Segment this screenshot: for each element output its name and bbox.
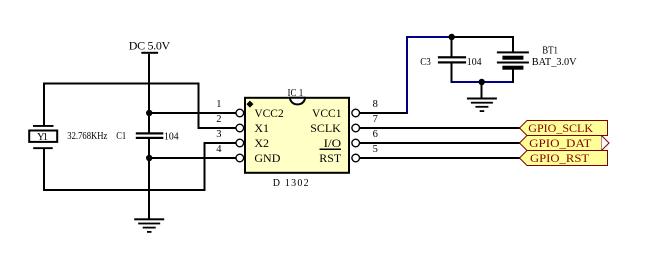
wire: navy vertical pin8 up — [406, 36, 408, 114]
node: junction GND/pin4 — [146, 155, 152, 161]
capacitor C1 — [136, 132, 164, 139]
svg-text:BAT_3.0V: BAT_3.0V — [532, 56, 577, 68]
wire: pin6 I/O to flag — [360, 142, 520, 144]
wire: vertical pin3 to bottom wire — [204, 142, 206, 191]
svg-text:RST: RST — [319, 151, 341, 165]
svg-text:3: 3 — [216, 129, 221, 140]
svg-text:I/O: I/O — [324, 136, 342, 150]
svg-text:32.768KHz: 32.768KHz — [67, 131, 107, 142]
wire: vertical from top wire to pin2 — [198, 83, 200, 130]
port flag GPIO_SCLK — [520, 121, 608, 136]
wire: bottom horizontal (X2 net) — [43, 189, 206, 191]
notch at top of IC — [290, 98, 305, 105]
svg-text:IC 1: IC 1 — [288, 88, 304, 99]
pin circle 7 — [352, 124, 360, 132]
wire: left vertical to crystal top — [43, 83, 45, 127]
wire: pin8 horizontal — [360, 112, 409, 114]
svg-text:X1: X1 — [254, 121, 269, 135]
svg-text:GND: GND — [254, 151, 280, 165]
svg-text:BT1: BT1 — [542, 45, 558, 57]
svg-text:8: 8 — [373, 99, 378, 110]
pin circle 3 — [236, 139, 244, 147]
wire: pin5 RST to flag — [360, 157, 520, 159]
wire: battery top lead — [512, 36, 514, 52]
node: junction at ground (bottom right) — [479, 79, 485, 85]
wire: VCC vertical from power to C1 top — [148, 84, 150, 134]
wire: battery bottom lead — [512, 69, 514, 83]
wire: navy bottom horizontal C3 to battery — [452, 81, 513, 83]
svg-text:DC 5.0V: DC 5.0V — [129, 39, 171, 53]
wire: navy horizontal to junction — [406, 36, 452, 38]
pin-1 diamond marker — [246, 101, 253, 108]
svg-text:5: 5 — [373, 144, 378, 155]
battery BT1 — [497, 51, 529, 69]
svg-text:2: 2 — [216, 114, 221, 125]
IC U1 D1302 body — [216, 88, 378, 189]
wire: C3 bottom stem — [451, 63, 453, 83]
node: junction at C3 top — [449, 34, 455, 40]
wire: top horizontal (X1 net) — [43, 83, 200, 85]
svg-text:C3: C3 — [420, 57, 431, 68]
pin circle 4 — [236, 154, 244, 162]
svg-text:X2: X2 — [254, 136, 269, 150]
svg-text:104: 104 — [467, 57, 483, 68]
crystal Y1 — [29, 125, 57, 149]
svg-text:VCC2: VCC2 — [254, 106, 283, 120]
svg-text:Y1: Y1 — [37, 132, 48, 143]
wire: C3 top stem — [451, 37, 453, 57]
wire: pin3 X2 horizontal — [204, 142, 237, 144]
wire: pin7 SCLK to flag — [360, 127, 520, 129]
port flag GPIO_DAT — [520, 136, 610, 151]
ground (battery/C3) — [467, 98, 497, 113]
svg-text:1: 1 — [216, 99, 221, 110]
svg-text:SCLK: SCLK — [310, 121, 341, 135]
svg-text:GPIO_SCLK: GPIO_SCLK — [528, 121, 593, 135]
wire: pin4 GND horizontal — [148, 157, 236, 159]
svg-text:C1: C1 — [116, 131, 126, 142]
svg-text:4: 4 — [216, 144, 222, 155]
svg-text:7: 7 — [373, 114, 378, 125]
port flag GPIO_RST — [520, 151, 608, 166]
svg-text:GPIO_RST: GPIO_RST — [530, 151, 590, 165]
svg-text:104: 104 — [164, 132, 179, 143]
power symbol DC 5.0V — [129, 39, 171, 85]
wire: ground stem (bottom right) — [481, 82, 483, 98]
ground (main, below C1) — [134, 218, 164, 233]
node: junction VCC/pin1 — [146, 110, 152, 116]
svg-text:VCC1: VCC1 — [312, 106, 342, 120]
pin circle 6 — [352, 139, 360, 147]
pin circle 2 — [236, 124, 244, 132]
capacitor C3 — [438, 56, 466, 63]
wire: C1 bottom to ground stem — [148, 138, 150, 219]
svg-text:D 1302: D 1302 — [273, 178, 309, 189]
wire: pin1 VCC2 horizontal — [148, 112, 236, 114]
svg-text:6: 6 — [373, 129, 378, 140]
pin circle 8 — [352, 109, 360, 117]
pin circle 1 — [236, 109, 244, 117]
wire: crystal bottom vertical — [43, 148, 45, 191]
svg-text:GPIO_DAT: GPIO_DAT — [529, 136, 592, 150]
wire: black horizontal junction to battery — [452, 36, 514, 38]
wire: pin2 X1 horizontal — [198, 127, 237, 129]
pin circle 5 — [352, 154, 360, 162]
